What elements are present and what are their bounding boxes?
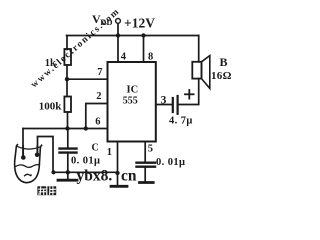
node left electrode tip (21, 155, 26, 160)
svg-text:1: 1 (107, 147, 112, 158)
label liquid CJK glyphs (37, 186, 56, 195)
wire pin 3 (156, 104, 173, 106)
node pin7 junction (65, 77, 69, 81)
speaker B driver box (192, 62, 201, 79)
wire 1k to pin7 node (66, 65, 68, 97)
ground bar under pin1 (111, 185, 127, 188)
resistor R1 1k (64, 49, 71, 65)
node C-bus junction (66, 170, 70, 174)
resistor R2 100k (64, 97, 71, 113)
svg-text:1k: 1k (45, 58, 56, 69)
node pin4 rail junction (116, 33, 120, 37)
wire pin 7 (67, 78, 108, 80)
wire pin 1 (117, 142, 119, 186)
label plus polarity (185, 93, 194, 95)
capacitor C plates (60, 147, 77, 149)
sensor vessel mouth arc (17, 146, 41, 149)
node right electrode tip (35, 153, 40, 158)
svg-text:DD: DD (100, 17, 112, 27)
wire left column upper (66, 36, 68, 50)
VDD terminal circle (116, 19, 121, 24)
svg-text:555: 555 (123, 95, 138, 106)
svg-text:2: 2 (96, 91, 101, 102)
sensor vessel outline (15, 145, 42, 183)
liquid surface wave (16, 165, 40, 168)
wire into left electrode (22, 146, 24, 156)
ground bar under pin5 cap (140, 181, 154, 184)
wire pin 2 (86, 104, 108, 129)
svg-text:8: 8 (148, 52, 153, 63)
wire capacitor C top lead (67, 129, 69, 149)
svg-text:3: 3 (161, 95, 167, 107)
node trigger junction (65, 126, 69, 130)
svg-text:0. 01μ: 0. 01μ (71, 156, 100, 167)
svg-text:7: 7 (97, 67, 102, 78)
wire capacitor C bottom lead (67, 154, 69, 179)
wire pin 5 (144, 142, 146, 163)
node bus-left junction (51, 170, 55, 174)
wire cap to speaker (178, 79, 199, 105)
ground bar under C (58, 179, 77, 182)
wire pin 6 net (23, 128, 108, 130)
svg-text:+12V: +12V (124, 16, 155, 31)
svg-text:ybx8.: ybx8. (77, 168, 113, 185)
capacitor C3 0.01u plates (137, 161, 156, 163)
wire right electrode to ground (38, 137, 54, 173)
svg-text:5: 5 (148, 144, 153, 155)
wire pin 8 (143, 36, 145, 63)
svg-text:100k: 100k (39, 101, 63, 113)
VDD terminal stub (117, 24, 119, 36)
wire ground bus (53, 171, 118, 173)
wire speaker top lead (198, 36, 200, 62)
capacitor C2 4.7u plates (172, 98, 174, 112)
wire pin 4 (117, 36, 119, 63)
wire pin5 cap to ground (144, 168, 146, 182)
node pin1 bus junction (115, 171, 119, 175)
svg-text:6: 6 (95, 117, 100, 128)
svg-text:4. 7μ: 4. 7μ (169, 116, 193, 127)
svg-text:B: B (220, 55, 228, 69)
svg-text:4: 4 (121, 52, 127, 63)
svg-text:0. 01μ: 0. 01μ (156, 157, 185, 168)
node pin8 rail junction (141, 33, 145, 37)
svg-text:IC: IC (127, 85, 139, 96)
speaker B cone (202, 56, 210, 89)
watermark red diagonal (29, 6, 122, 90)
node pin2 junction (84, 126, 88, 130)
svg-text:16Ω: 16Ω (211, 70, 232, 82)
wire 100k bottom (67, 112, 69, 129)
op-amp U1 IC 555 box (108, 62, 156, 142)
wire into right electrode (36, 146, 38, 153)
liquid squiggle (25, 174, 32, 175)
wire left electrode (22, 129, 24, 157)
svg-text:C: C (92, 143, 99, 154)
wire top +12V rail (67, 35, 199, 37)
svg-text:cn: cn (121, 168, 137, 185)
